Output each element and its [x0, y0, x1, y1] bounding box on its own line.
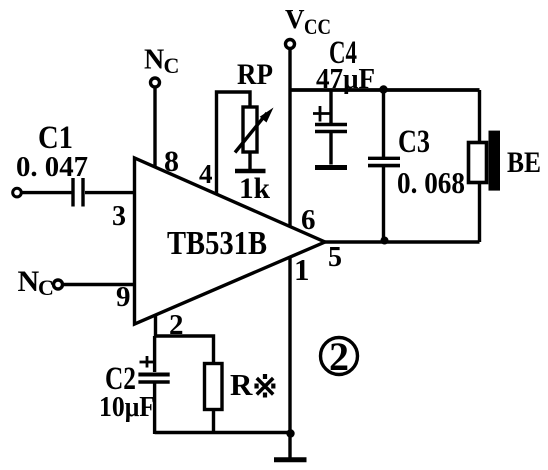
ground	[274, 457, 307, 462]
input terminal (left)	[13, 188, 22, 197]
capacitor C4	[313, 90, 347, 168]
op-amp U1 TB531B	[135, 158, 326, 324]
svg-text:C: C	[38, 275, 54, 300]
junction dot top rail / C3	[379, 85, 387, 93]
svg-text:9: 9	[116, 281, 131, 313]
svg-text:1: 1	[294, 252, 310, 287]
svg-text:N: N	[18, 265, 40, 298]
svg-text:TB531B: TB531B	[167, 225, 267, 262]
svg-text:BE: BE	[507, 146, 541, 179]
resistor R	[205, 364, 223, 435]
svg-text:RP: RP	[237, 58, 273, 91]
svg-text:C: C	[164, 53, 180, 78]
capacitor C2	[138, 336, 169, 434]
svg-text:47μF: 47μF	[316, 63, 375, 95]
wire pin 1 to ground	[288, 257, 291, 458]
svg-text:2: 2	[329, 334, 349, 379]
svg-text:8: 8	[164, 145, 179, 178]
capacitor C1	[73, 178, 83, 207]
NC terminal left (pin 9)	[18, 265, 63, 300]
svg-text:5: 5	[328, 242, 342, 273]
svg-text:C3: C3	[398, 124, 430, 160]
svg-text:V: V	[285, 4, 305, 34]
potentiometer RP	[235, 107, 274, 171]
bottom wire	[155, 431, 290, 434]
svg-text:4: 4	[199, 159, 213, 189]
svg-text:3: 3	[112, 201, 126, 232]
earphone BE	[469, 131, 501, 191]
svg-text:0. 068: 0. 068	[397, 165, 465, 200]
wire input to C1	[21, 191, 72, 194]
svg-text:N: N	[144, 45, 164, 76]
wire pin 2 node	[156, 316, 214, 363]
svg-text:1k: 1k	[239, 172, 270, 205]
right branch wire to BE	[478, 90, 481, 242]
capacitor C3	[368, 90, 400, 242]
output wire pin 5	[325, 240, 480, 243]
Vcc terminal	[285, 4, 331, 49]
wire NC to pin 8	[153, 88, 156, 169]
svg-text:CC: CC	[304, 14, 331, 39]
figure number 2	[321, 334, 358, 379]
wire Vcc to pin 6	[288, 49, 291, 228]
top rail wire	[290, 88, 480, 92]
svg-text:6: 6	[301, 204, 316, 236]
wire NC to pin 9	[63, 283, 134, 286]
junction dot output / C3	[381, 237, 389, 245]
svg-text:C1: C1	[38, 120, 73, 156]
svg-text:0. 047: 0. 047	[16, 152, 88, 183]
NC terminal top (pin 8)	[144, 45, 179, 88]
wire C1 to pin 3	[85, 191, 134, 194]
svg-text:※: ※	[252, 369, 278, 404]
svg-text:R: R	[230, 367, 253, 402]
junction dot bottom wire	[286, 429, 294, 437]
wire pin 4 to RP	[217, 92, 251, 195]
svg-text:10μF: 10μF	[99, 391, 155, 423]
